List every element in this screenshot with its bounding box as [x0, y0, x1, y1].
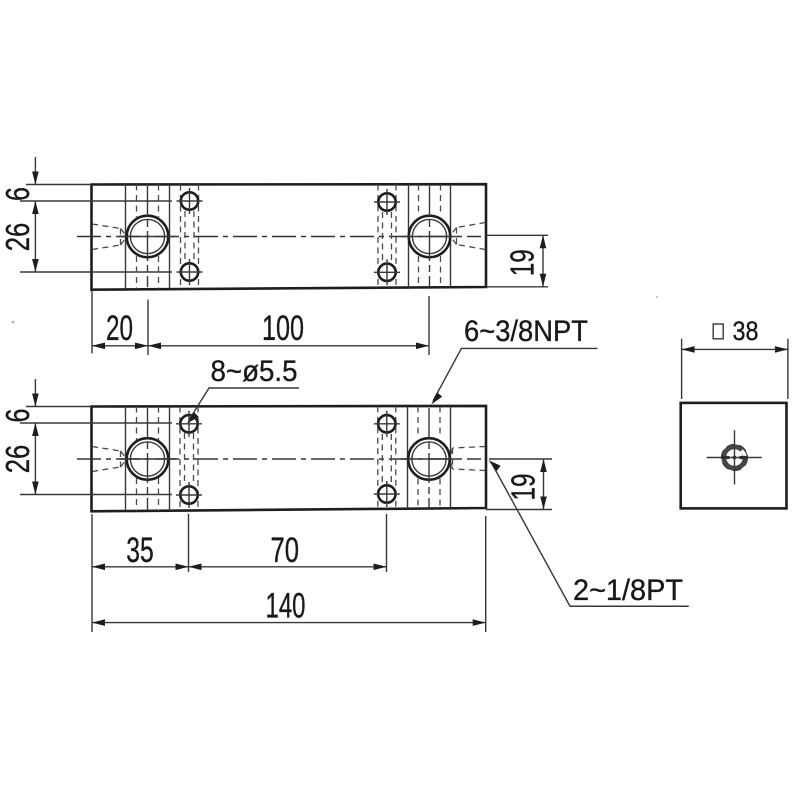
mounting hole column 1 hidden lines — [181, 185, 199, 289]
mounting hole column 2 hidden lines bottom view — [378, 406, 396, 509]
big hole C1 top view — [119, 186, 176, 287]
svg-text:35: 35 — [126, 531, 154, 570]
dim square38 line — [682, 346, 788, 353]
dim 20/100 extension lines — [92, 291, 429, 356]
svg-text:140: 140 — [266, 587, 306, 626]
leader 8~o5.5 line — [187, 388, 299, 424]
bottom view hole row line upper — [20, 422, 172, 424]
mounting hole col2 bottom circle — [374, 259, 400, 285]
dim 140 extension left lower part — [91, 572, 93, 632]
big hole C3 bottom view — [119, 408, 176, 510]
big hole C4 bottom view — [401, 408, 458, 508]
svg-text:6: 6 — [0, 409, 36, 423]
dim line 70 — [189, 564, 387, 571]
dim 6 extension top edge bottom view — [26, 406, 92, 408]
svg-text:6~3/8NPT: 6~3/8NPT — [464, 315, 588, 348]
svg-text:26: 26 — [0, 223, 36, 252]
side port taper left (1/8PT hidden) — [92, 224, 127, 250]
dim square38 extensions — [682, 339, 788, 399]
top view hole row line upper — [20, 200, 172, 202]
dim 6 arrow above bottom view — [32, 379, 39, 407]
dim square38 square glyph — [713, 324, 723, 339]
dim line 35 — [92, 564, 189, 571]
dim 35/70 extension lines — [92, 514, 387, 572]
side port taper right — [450, 223, 486, 250]
bottom view horizontal centerline — [77, 458, 481, 460]
side view hole centermark — [707, 430, 762, 484]
svg-text:8~ø5.5: 8~ø5.5 — [211, 355, 298, 388]
hidden bore lines left circle bottom view — [137, 407, 159, 512]
dim 140 extension right — [485, 516, 487, 632]
svg-text:20: 20 — [106, 309, 133, 348]
side view center hole thread ring — [722, 445, 748, 471]
mounting hole col1 bottom circle bottom view — [176, 482, 202, 508]
mounting hole col2 bottom circle bottom view — [374, 481, 400, 507]
top view horizontal centerline — [77, 236, 481, 238]
dim 6 extension top edge — [26, 184, 92, 186]
dim 19 top view line — [540, 235, 547, 286]
dim 19 bottom view line — [540, 459, 547, 510]
leader 6~3/8NPT line — [431, 348, 597, 404]
svg-text:2~1/8PT: 2~1/8PT — [573, 574, 683, 607]
dim 6 arrow above — [32, 157, 39, 185]
side view square outline — [681, 403, 787, 509]
svg-text:70: 70 — [270, 531, 299, 570]
dim line 100 — [148, 343, 429, 350]
top view block outline — [92, 184, 487, 290]
side port taper right bottom view (2~1/8PT) — [450, 447, 486, 471]
mounting hole col1 bottom circle — [177, 259, 203, 285]
hidden bore lines right circle — [419, 185, 441, 288]
bottom view block outline — [92, 406, 487, 511]
dim line 20 — [92, 343, 148, 350]
big hole C2 top view — [401, 186, 458, 287]
dim 19 bottom view extensions — [486, 459, 552, 510]
mounting hole column 1 hidden lines bottom view — [180, 407, 198, 511]
scan speck — [12, 321, 15, 324]
dim line 140 — [92, 619, 486, 626]
mounting hole col2 top circle — [374, 189, 400, 215]
port boss band left circle — [126, 185, 170, 289]
scan speck — [656, 296, 658, 298]
svg-text:26: 26 — [0, 445, 36, 474]
mounting hole col2 top circle bottom view — [374, 411, 400, 437]
hidden bore lines right circle bottom view — [418, 407, 440, 509]
side port taper left bottom view — [92, 447, 127, 472]
bottom view hole row line lower — [20, 494, 172, 496]
mounting hole col1 top circle bottom view — [176, 411, 202, 437]
svg-text:19: 19 — [504, 249, 541, 276]
svg-text:6: 6 — [0, 187, 36, 201]
leader 2~1/8PT line — [489, 460, 689, 606]
port boss band right circle bottom view — [408, 406, 451, 508]
port boss band right circle — [409, 184, 451, 287]
svg-text:100: 100 — [262, 309, 304, 348]
dim 19 top view extensions — [486, 235, 548, 286]
top view hole row line lower — [20, 271, 172, 273]
dim 26 line bottom view — [32, 423, 39, 495]
svg-text:38: 38 — [733, 316, 759, 346]
dim 26 line with arrows — [32, 201, 39, 272]
mounting hole col1 top circle — [177, 188, 203, 214]
port boss band left circle bottom view — [126, 407, 170, 512]
mounting hole column 2 hidden lines — [378, 184, 396, 287]
hidden bore lines left circle — [137, 185, 159, 289]
